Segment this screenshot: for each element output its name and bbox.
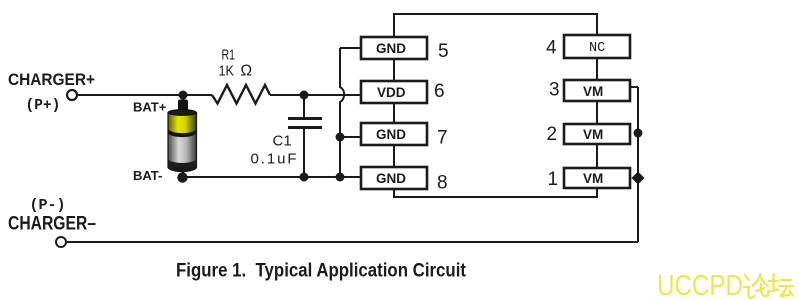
pin GND 8	[361, 167, 427, 189]
wire right VM rail	[637, 87, 639, 242]
svg-text:(P-): (P-)	[30, 197, 66, 214]
wire left gnd rail with hop	[340, 48, 344, 177]
svg-text:VM: VM	[583, 171, 603, 186]
svg-text:C1: C1	[273, 133, 292, 150]
svg-text:CHARGER–: CHARGER–	[8, 214, 96, 235]
wire pin2-pin1	[596, 143, 598, 168]
pin VM 2	[564, 124, 630, 144]
svg-text:0.1uF: 0.1uF	[251, 151, 297, 168]
svg-text:GND: GND	[376, 171, 406, 186]
wire CHARGER+ to R1	[77, 94, 212, 96]
pin GND 5	[361, 37, 427, 59]
node junction C1 top	[300, 91, 309, 100]
svg-text:8: 8	[437, 173, 448, 194]
pin VDD 6	[361, 81, 427, 103]
wire battery positive stem	[182, 95, 185, 103]
svg-text:(P+): (P+)	[26, 98, 61, 114]
wire U1 bottom link	[394, 189, 597, 197]
pin NC 4	[564, 35, 630, 58]
resistor R1	[212, 85, 270, 104]
svg-text:VM: VM	[583, 127, 603, 142]
svg-text:1: 1	[548, 169, 559, 190]
pin VM 1	[564, 168, 630, 188]
terminal CHARGER-	[56, 237, 66, 247]
node junction VM2	[634, 129, 643, 138]
wire pin4-pin3	[596, 58, 598, 80]
svg-text:VM: VM	[583, 84, 603, 99]
svg-text:Ω: Ω	[241, 63, 253, 80]
wire GND7 stub	[340, 136, 361, 138]
node junction VM1	[632, 172, 645, 185]
svg-text:5: 5	[438, 41, 449, 62]
svg-text:3: 3	[549, 80, 560, 101]
svg-text:Figure 1. Typical Application: Figure 1. Typical Application Circuit	[176, 260, 466, 282]
svg-text:7: 7	[437, 128, 448, 149]
wire battery negative stem	[182, 168, 185, 177]
wire pin3-pin2	[596, 101, 598, 124]
node junction C1 bottom	[300, 173, 309, 182]
svg-text:GND: GND	[376, 41, 406, 56]
wire R1 to VDD	[270, 94, 361, 96]
node P- label	[30, 197, 66, 214]
wire ground net bottom	[183, 176, 361, 178]
terminal CHARGER+	[67, 90, 77, 100]
capacitor C1	[288, 95, 322, 177]
node junction battery+	[179, 91, 188, 100]
node junction battery-	[177, 172, 187, 182]
wire pin5-pin6	[393, 59, 395, 81]
wire pin7-pin8	[393, 145, 395, 167]
battery BT1	[168, 100, 197, 172]
svg-text:GND: GND	[376, 127, 406, 142]
wire GND5 stub	[340, 47, 361, 49]
svg-text:NC: NC	[589, 41, 605, 56]
svg-text:R1: R1	[222, 48, 236, 64]
node junction rail GND7	[336, 133, 345, 142]
svg-text:VDD: VDD	[377, 85, 406, 100]
node junction rail GND8	[336, 173, 345, 182]
wire CHARGER- net	[66, 241, 638, 243]
svg-text:2: 2	[547, 124, 558, 145]
wire pin6-pin7	[393, 103, 395, 123]
svg-text:UCCPD: UCCPD	[657, 270, 743, 300]
svg-text:6: 6	[434, 81, 445, 102]
pin GND 7	[361, 123, 427, 145]
svg-text:4: 4	[546, 38, 557, 59]
node CHARGER- label	[8, 214, 96, 235]
node CHARGER+ label	[8, 71, 95, 89]
svg-text:1K: 1K	[219, 64, 235, 80]
svg-text:CHARGER+: CHARGER+	[8, 71, 95, 89]
IC U1 outline top	[394, 14, 597, 37]
svg-text:BAT+: BAT+	[133, 100, 167, 115]
svg-text:BAT-: BAT-	[133, 168, 162, 183]
node P+ label	[26, 98, 61, 114]
pin VM 3	[564, 80, 630, 101]
wire VM3 to right rail	[630, 86, 638, 88]
watermark UCCPD forum	[657, 270, 793, 300]
